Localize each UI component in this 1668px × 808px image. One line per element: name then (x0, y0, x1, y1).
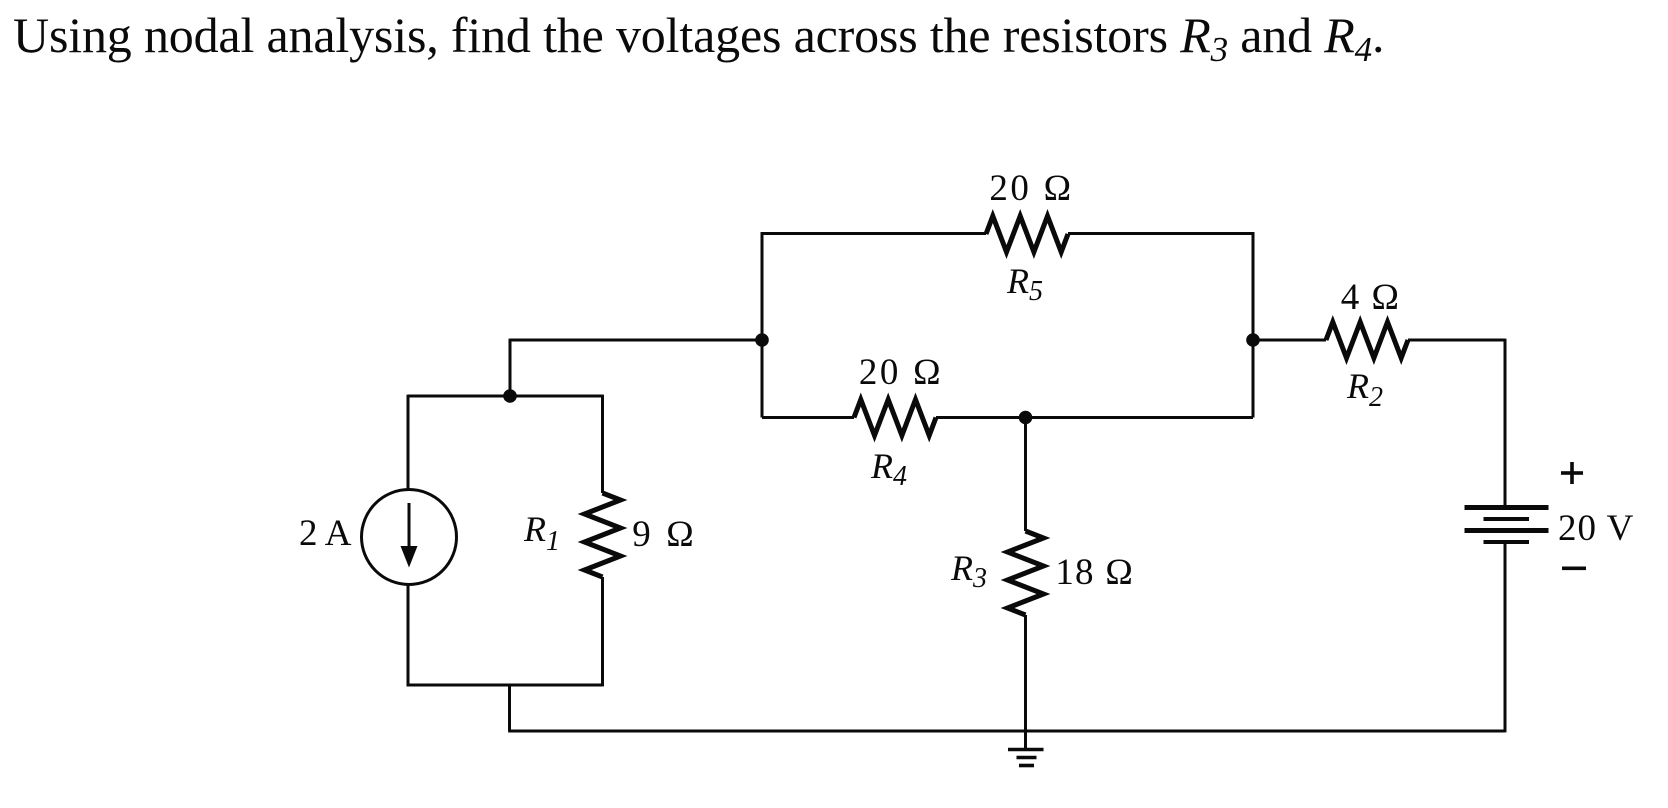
svg-text:R2: R2 (1346, 366, 1383, 413)
junction node D dot (1019, 411, 1033, 425)
wire R4 branch left segment (762, 416, 854, 419)
svg-text:20 Ω: 20 Ω (989, 168, 1074, 209)
current source arrowhead (401, 546, 418, 568)
wire ground stub (1024, 731, 1027, 750)
battery V1 plate short (1484, 517, 1530, 521)
svg-text:Using nodal analysis, find the: Using nodal analysis, find the voltages … (13, 7, 1384, 69)
wire from node D down to R3 (1024, 418, 1027, 532)
label minus sign of battery (1562, 567, 1586, 571)
wire source box left upper (407, 395, 410, 490)
wire source box top (408, 395, 603, 398)
wire source box bottom (407, 684, 603, 687)
wire top branch right vertical (down to node B and R4 branch) (1252, 232, 1255, 417)
resistor R4 20 ohm zigzag (854, 400, 936, 436)
svg-text:R5: R5 (1006, 261, 1043, 307)
junction node A dot (755, 333, 769, 347)
wire R2 branch left stub from node B (1253, 339, 1326, 342)
wire right riser lower (battery minus to bottom rail) (1504, 542, 1507, 732)
wire right riser upper (down to battery plus) (1504, 339, 1507, 507)
battery V1 plate long (1465, 528, 1549, 533)
wire bottom rail (508, 730, 1505, 733)
battery V1 plate short bottom (minus) (1484, 540, 1530, 544)
current source I1 2 A circle (362, 490, 457, 585)
svg-text:R4: R4 (870, 446, 907, 492)
wire middle feed from node C to node A (510, 339, 762, 342)
wire top branch left horizontal (761, 232, 986, 235)
svg-text:R1: R1 (523, 509, 560, 557)
wire from R3 down to bottom rail (1024, 615, 1027, 731)
ground bar 3 (1019, 764, 1034, 768)
current source arrow shaft (408, 503, 411, 549)
svg-text:R3: R3 (950, 548, 987, 594)
battery V1 plate long top (plus) (1465, 505, 1549, 510)
resistor R2 4 ohm zigzag (1326, 322, 1408, 358)
svg-text:9 Ω: 9 Ω (632, 514, 697, 555)
resistor R1 9 ohm zigzag (585, 493, 621, 577)
svg-text:20 V: 20 V (1558, 508, 1634, 549)
svg-text:2 A: 2 A (299, 513, 352, 554)
wire top branch left vertical (node A up to R5 branch) (761, 232, 764, 417)
svg-text:4 Ω: 4 Ω (1341, 277, 1401, 318)
svg-text:20 Ω: 20 Ω (859, 352, 944, 393)
junction node B dot (1246, 333, 1260, 347)
wire source box right upper (601, 395, 604, 493)
wire drop from source box to bottom rail (508, 685, 511, 731)
wire source box right lower (601, 577, 604, 686)
wire source box left lower (407, 584, 410, 686)
svg-text:18 Ω: 18 Ω (1055, 552, 1134, 593)
wire feed drop from corner down to node C (509, 339, 512, 396)
resistor R3 18 ohm zigzag (1008, 531, 1044, 615)
wire top branch right horizontal (1068, 232, 1254, 235)
label plus sign of battery (1561, 462, 1583, 484)
wire from R2 to right riser (1408, 339, 1505, 342)
ground bar 1 (1008, 748, 1044, 752)
junction node C dot (503, 389, 517, 403)
ground bar 2 (1017, 756, 1037, 760)
resistor R5 20 ohm zigzag (986, 216, 1068, 252)
wire R4 branch right segment to node B riser (936, 416, 1253, 419)
